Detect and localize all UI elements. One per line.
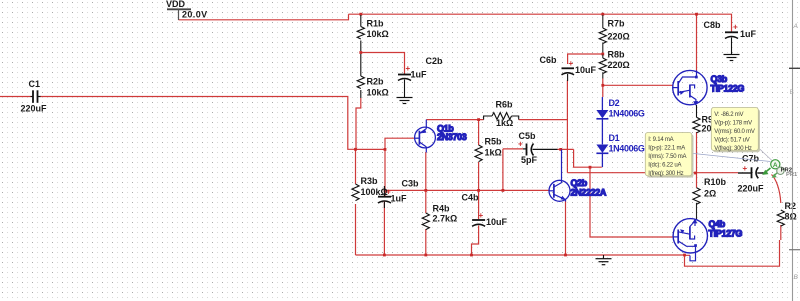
svg-text:B: B <box>794 274 799 281</box>
svg-text:R2b: R2b <box>367 77 385 87</box>
node R5b top <box>477 118 480 121</box>
svg-text:1uF: 1uF <box>740 29 757 39</box>
wire top rail <box>349 14 732 32</box>
wire Q1b collector to R6b <box>426 119 483 121</box>
svg-text:R3b: R3b <box>361 176 379 186</box>
node R4b bottom rail <box>424 254 427 257</box>
svg-text:2Ω: 2Ω <box>704 189 716 199</box>
node R9b-R10b output <box>694 172 697 175</box>
svg-text:PR1: PR1 <box>786 172 798 178</box>
wire y190 bus <box>385 189 550 191</box>
wire node to Q4b base <box>590 167 673 237</box>
svg-text:220uF: 220uF <box>738 184 765 194</box>
wire R2 top curve to probe point <box>772 175 781 204</box>
svg-text:20.0V: 20.0V <box>182 10 208 20</box>
wire Q4b emitter to R2 return <box>685 240 780 266</box>
svg-text:A: A <box>773 162 778 169</box>
transistor Q3b (NPN Darlington TIP122G) <box>673 70 745 105</box>
svg-text:C1: C1 <box>29 79 41 89</box>
wire C6b top link <box>568 54 603 64</box>
svg-text:V: -86.2 mV: V: -86.2 mV <box>714 112 743 118</box>
svg-text:R7b: R7b <box>608 19 626 29</box>
resistor R8b <box>599 50 630 79</box>
wire C6b vertical drop <box>566 80 568 173</box>
wire R3b leads <box>355 149 357 255</box>
svg-text:1kΩ: 1kΩ <box>496 118 513 128</box>
svg-text:R1b: R1b <box>367 19 385 29</box>
tooltip probe PR1 current readout <box>645 133 693 178</box>
svg-text:100kΩ: 100kΩ <box>361 187 388 197</box>
node R1b-R2b <box>359 51 362 54</box>
svg-text:10uF: 10uF <box>486 217 508 227</box>
capacitor C6b <box>540 55 597 81</box>
ground below C2b <box>397 98 413 104</box>
wire C5b left drop <box>503 149 523 191</box>
svg-text:B: B <box>790 89 794 96</box>
resistor R5b <box>475 137 502 162</box>
svg-text:R2: R2 <box>785 201 797 211</box>
capacitor C5b (horizontal) <box>518 131 558 165</box>
capacitor C2b <box>398 56 443 97</box>
node Q3b collector top <box>695 13 698 16</box>
capacitor C7b (horizontal) <box>738 154 767 194</box>
svg-text:220Ω: 220Ω <box>608 60 630 70</box>
wire bottom rail <box>356 254 685 256</box>
resistor R3b <box>352 176 388 201</box>
resistor R6b (horizontal) <box>484 100 519 129</box>
svg-text:C2b: C2b <box>426 56 444 66</box>
svg-text:C3b: C3b <box>402 179 420 189</box>
resistor R10b <box>693 177 727 219</box>
wire Q4b emitter hook <box>690 253 696 261</box>
node C5b drop on y190 <box>502 189 505 192</box>
svg-text:10uF: 10uF <box>575 65 597 75</box>
wire Q1b emitter to R4b <box>425 152 427 255</box>
svg-text:R10b: R10b <box>704 177 727 187</box>
wire R6b output to C6b drop <box>519 119 568 121</box>
diode D1 <box>596 133 645 167</box>
svg-text:2N3703: 2N3703 <box>437 132 467 142</box>
svg-text:D1: D1 <box>609 133 620 143</box>
leader line tooltip2 to probe <box>758 147 773 161</box>
capacitor C3b <box>378 179 419 209</box>
wire R8b bottom to diode node <box>602 79 604 98</box>
ground below C8b <box>724 55 740 61</box>
probe PR2/PR1 <box>762 160 798 179</box>
svg-text:C6b: C6b <box>540 55 558 65</box>
node R7b top <box>601 13 604 16</box>
node R8b-D2-Q3b base <box>601 84 604 87</box>
svg-text:C8b: C8b <box>704 20 722 30</box>
diode D2 <box>596 97 645 144</box>
transistor Q4b (PNP Darlington TIP127G) <box>673 219 742 253</box>
svg-text:V(freq): 300 Hz: V(freq): 300 Hz <box>714 146 752 152</box>
svg-text:V(dc): 51.7 uV: V(dc): 51.7 uV <box>714 138 749 144</box>
resistor R2 <box>777 201 797 226</box>
svg-text:C5b: C5b <box>519 131 537 141</box>
svg-text:10kΩ: 10kΩ <box>367 88 389 98</box>
svg-text:I: 9.14 mA: I: 9.14 mA <box>648 137 673 143</box>
node Q1b emitter-R4b <box>424 189 427 192</box>
svg-text:+: + <box>733 23 738 32</box>
ground main (bottom rail) <box>596 255 612 265</box>
svg-text:8Ω: 8Ω <box>785 212 797 222</box>
svg-text:I(dc): 6.22 uA: I(dc): 6.22 uA <box>648 163 681 169</box>
svg-text:1N4006G: 1N4006G <box>609 109 645 119</box>
wire C5b right to node <box>558 148 574 150</box>
svg-text:I(rms): 7.50 mA: I(rms): 7.50 mA <box>648 154 686 160</box>
resistor R2b <box>357 54 389 98</box>
svg-text:Q3b: Q3b <box>711 74 728 84</box>
svg-text:2N2222A: 2N2222A <box>571 187 607 197</box>
svg-text:V(p-p): 178 mV: V(p-p): 178 mV <box>714 121 752 127</box>
node Q2b collector <box>559 148 562 151</box>
leader line tooltip1 to probe <box>694 154 771 162</box>
resistor R1b <box>357 15 389 51</box>
svg-text:R6b: R6b <box>496 100 514 110</box>
node Q1b base / C3b <box>384 148 387 151</box>
capacitor C4b <box>462 193 508 228</box>
resistor R7b <box>599 15 630 53</box>
resistor R4b <box>422 204 457 230</box>
node D1 cathode junction <box>589 166 592 169</box>
svg-text:TIP122G: TIP122G <box>711 84 745 94</box>
svg-text:1uF: 1uF <box>411 70 428 80</box>
svg-text:+: + <box>743 164 748 173</box>
node C4b bottom rail <box>470 254 473 257</box>
wire R5b leads <box>478 120 480 191</box>
svg-text:10kΩ: 10kΩ <box>367 29 389 39</box>
svg-text:R8b: R8b <box>608 50 626 60</box>
wire R2 bottom lead <box>780 225 782 240</box>
wire output bus y173 <box>567 172 738 174</box>
oscilloscope edge at right <box>789 0 800 301</box>
wire Q3b collector <box>696 14 698 70</box>
svg-text:VDD: VDD <box>166 0 186 9</box>
svg-text:+: + <box>479 211 484 220</box>
capacitor C8b <box>704 20 757 54</box>
svg-text:R4b: R4b <box>433 204 451 214</box>
wire R8b node to Q3b base <box>602 84 672 86</box>
wire VDD to top rail <box>179 14 349 20</box>
wire node A to Q1b base <box>356 138 415 149</box>
svg-text:1uF: 1uF <box>391 194 408 204</box>
tooltip probe PR2 voltage readout <box>711 108 760 153</box>
node R5b-C4b <box>477 189 480 192</box>
svg-text:D2: D2 <box>609 98 620 108</box>
wire C3b branch <box>383 149 386 255</box>
wire C4b branch <box>472 190 479 255</box>
VDD power symbol <box>166 0 208 20</box>
resistor R9b <box>693 105 719 134</box>
svg-text:R5b: R5b <box>485 137 503 147</box>
svg-text:A: A <box>793 23 798 30</box>
node rail corner to Q4b emitter <box>683 254 686 257</box>
node A input junction <box>354 148 357 151</box>
svg-text:5pF: 5pF <box>521 155 538 165</box>
capacitor C1 <box>21 79 48 114</box>
transistor Q2b (NPN 2N2222A) <box>549 150 607 202</box>
svg-text:I(freq): 300 Hz: I(freq): 300 Hz <box>648 171 683 177</box>
node C3b top on y190 <box>384 189 387 192</box>
wire R9b bottom <box>696 132 698 173</box>
svg-text:2.7kΩ: 2.7kΩ <box>433 214 458 224</box>
node Q2b emitter rail <box>564 254 567 257</box>
node R1b top <box>359 13 362 16</box>
svg-text:220uF: 220uF <box>21 104 48 114</box>
node R7b-R8b <box>601 53 604 56</box>
svg-text:Q4b: Q4b <box>709 219 726 229</box>
svg-text:C4b: C4b <box>462 193 480 203</box>
wire R10b top lead <box>696 173 698 188</box>
svg-text:1N4006G: 1N4006G <box>609 144 645 154</box>
transistor Q1b (PNP 2N3703) <box>415 120 467 153</box>
svg-text:1kΩ: 1kΩ <box>485 148 502 158</box>
wire C2b top <box>361 53 405 74</box>
wire C1 input net <box>0 97 356 150</box>
node C3b bottom rail <box>383 254 386 257</box>
wire R2b bottom jog <box>356 98 361 149</box>
svg-text:+: + <box>569 59 574 68</box>
svg-text:I(p-p): 22.1 mA: I(p-p): 22.1 mA <box>648 146 685 152</box>
svg-text:TIP127G: TIP127G <box>709 229 743 239</box>
wire diode branch <box>574 149 602 167</box>
wire Q2b emitter down <box>565 201 567 256</box>
svg-text:V(rms): 60.0 mV: V(rms): 60.0 mV <box>714 129 755 135</box>
svg-text:220Ω: 220Ω <box>608 32 630 42</box>
